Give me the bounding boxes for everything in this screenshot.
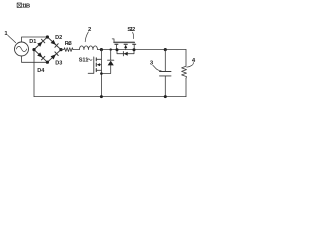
pointer from label S12 — [133, 32, 134, 38]
pointer from label 4 — [187, 63, 194, 68]
transistor S11 channel dashes — [95, 58, 97, 72]
diode D1 — [37, 39, 45, 47]
wire inductor to S12 and output corner — [98, 49, 187, 51]
ac source — [15, 42, 29, 56]
pointer from label S11 — [88, 59, 92, 61]
wire output right drop — [185, 49, 187, 66]
svg-text:4: 4 — [192, 58, 196, 64]
transistor S11 body arrow — [97, 63, 100, 66]
pointer from label 2 — [85, 32, 88, 42]
pointer from label 1 — [8, 35, 16, 42]
node top vertex — [46, 35, 49, 38]
wire load to rail — [185, 78, 187, 96]
wire Rs3 to inductor — [73, 49, 79, 51]
svg-text:D1: D1 — [29, 39, 36, 45]
ac source sine — [16, 46, 27, 51]
transistor S12 body arrow — [124, 45, 127, 48]
transistor S12 channel dashes — [115, 43, 136, 45]
diode S12 body diode — [117, 50, 134, 56]
transistor S12 gate bar — [114, 41, 134, 43]
node bottom vertex — [46, 61, 49, 64]
node S12 left — [116, 48, 119, 51]
resistor Rs3 — [64, 48, 73, 52]
bridge edge left-top — [34, 37, 47, 50]
svg-text:S11: S11 — [79, 57, 89, 63]
diode D4 — [37, 52, 45, 60]
svg-text:D4: D4 — [37, 68, 45, 74]
wire right vertex to Rs3 — [61, 49, 64, 51]
node left vertex — [32, 48, 35, 51]
capacitor 3 top lead — [164, 50, 166, 72]
svg-text:11B: 11B — [22, 4, 30, 10]
figure title 図11B — [17, 3, 21, 8]
diode D3 — [51, 52, 59, 60]
capacitor 3 bottom lead — [164, 76, 166, 97]
pointer from label 3 — [153, 65, 161, 71]
wire ac bottom lead — [22, 56, 48, 62]
wire ac top lead — [22, 37, 48, 42]
bridge edge left-bottom — [34, 50, 47, 63]
node S11 source diode join — [100, 72, 103, 75]
diode S11 body diode — [101, 50, 113, 74]
wire left vertex drop — [33, 50, 35, 97]
wire S11 drain lead — [100, 50, 102, 97]
node capacitor top — [164, 48, 167, 51]
diode D2 — [51, 40, 59, 48]
node S11 source on rail — [100, 95, 103, 98]
node S12 right — [133, 48, 136, 51]
capacitor 3 plates — [160, 72, 172, 76]
inductor 2 — [79, 46, 97, 50]
svg-text:Rs3: Rs3 — [65, 41, 72, 47]
node inductor output — [100, 48, 103, 51]
transistor S12 stubs — [116, 44, 134, 49]
svg-text:1: 1 — [4, 31, 8, 37]
node capacitor bottom on rail — [164, 95, 167, 98]
svg-text:S12: S12 — [127, 27, 135, 33]
bridge edge bottom-right — [47, 50, 61, 63]
wire bottom rail — [34, 96, 186, 98]
node S11 diode top — [110, 48, 112, 50]
svg-text:D3: D3 — [55, 60, 62, 66]
load 4 zigzag — [182, 66, 187, 78]
bridge edge top-right — [47, 37, 61, 50]
transistor S11 stubs — [96, 59, 101, 70]
node right vertex — [59, 48, 62, 51]
svg-text:D2: D2 — [55, 35, 62, 41]
transistor S11 gate bar — [88, 57, 94, 73]
